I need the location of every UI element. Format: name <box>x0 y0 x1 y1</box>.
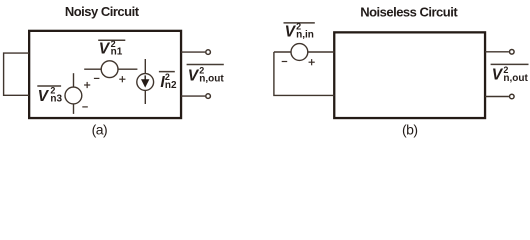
svg-text:V: V <box>188 67 200 84</box>
svg-text:n,in: n,in <box>296 30 314 41</box>
svg-text:Noisy Circuit: Noisy Circuit <box>65 4 140 19</box>
noisy circuit box <box>29 31 181 118</box>
svg-text:V: V <box>492 67 504 84</box>
voltage source Vn1: right wire <box>118 68 137 70</box>
svg-text:Noiseless Circuit: Noiseless Circuit <box>360 4 458 19</box>
svg-text:(a): (a) <box>92 121 108 137</box>
svg-text:n2: n2 <box>165 80 177 91</box>
terminal top (b) <box>510 50 515 55</box>
label Vn,in overline <box>284 22 315 24</box>
voltage source Vn,in: circle <box>291 44 308 61</box>
label Vn,out (b) <box>492 65 529 84</box>
svg-text:V: V <box>99 41 111 58</box>
current source In2: bottom stub <box>144 90 146 104</box>
polarity + of Vn1 <box>119 76 125 82</box>
voltage source Vn1: circle <box>101 61 118 78</box>
voltage source Vn1: left wire <box>84 68 101 70</box>
wire: output top (b) <box>485 51 509 53</box>
wire: input right segment (b) <box>308 51 335 53</box>
polarity + of Vn3 <box>84 82 90 88</box>
wire: left feedback loop (a) <box>4 53 29 95</box>
wire: input left segment (b) <box>274 51 291 53</box>
polarity - of Vn3 <box>82 106 88 108</box>
svg-text:n,out: n,out <box>199 73 224 84</box>
label Vn3 <box>38 85 63 104</box>
voltage source Vn3: bottom stub <box>73 104 75 114</box>
wire: output bottom (a) <box>181 95 205 97</box>
svg-text:V: V <box>38 88 50 105</box>
voltage source Vn3: top stub <box>73 73 75 87</box>
label In2 <box>160 72 177 91</box>
label In2 overline <box>159 71 175 73</box>
label Vn,out (b) overline <box>491 63 529 65</box>
noiseless circuit box <box>334 32 485 118</box>
polarity - of Vn1 <box>94 77 100 79</box>
label Vn,out (a) overline <box>187 64 224 66</box>
polarity + of Vn,in <box>309 59 315 65</box>
voltage source Vn3: circle <box>65 87 82 104</box>
label Vn1 overline <box>98 39 125 41</box>
wire: output top (a) <box>181 51 205 53</box>
label Vn,in <box>285 22 314 41</box>
svg-text:n,out: n,out <box>503 73 528 84</box>
current source In2: top stub <box>144 59 146 74</box>
terminal top (a) <box>206 50 211 55</box>
current source In2: arrow <box>141 75 149 87</box>
polarity - of Vn,in <box>282 61 288 63</box>
terminal bottom (a) <box>206 94 211 99</box>
label Vn3 overline <box>37 85 61 87</box>
svg-text:n3: n3 <box>50 94 62 105</box>
label Vn1 <box>99 39 123 58</box>
wire: feedback loop (b) <box>274 52 335 95</box>
label Vn,out (a) <box>188 66 225 85</box>
svg-text:V: V <box>285 24 297 41</box>
wire: output bottom (b) <box>485 96 509 98</box>
svg-text:(b): (b) <box>402 122 418 138</box>
terminal bottom (b) <box>510 94 515 99</box>
svg-text:n1: n1 <box>111 47 123 58</box>
current source In2: circle <box>137 74 154 91</box>
